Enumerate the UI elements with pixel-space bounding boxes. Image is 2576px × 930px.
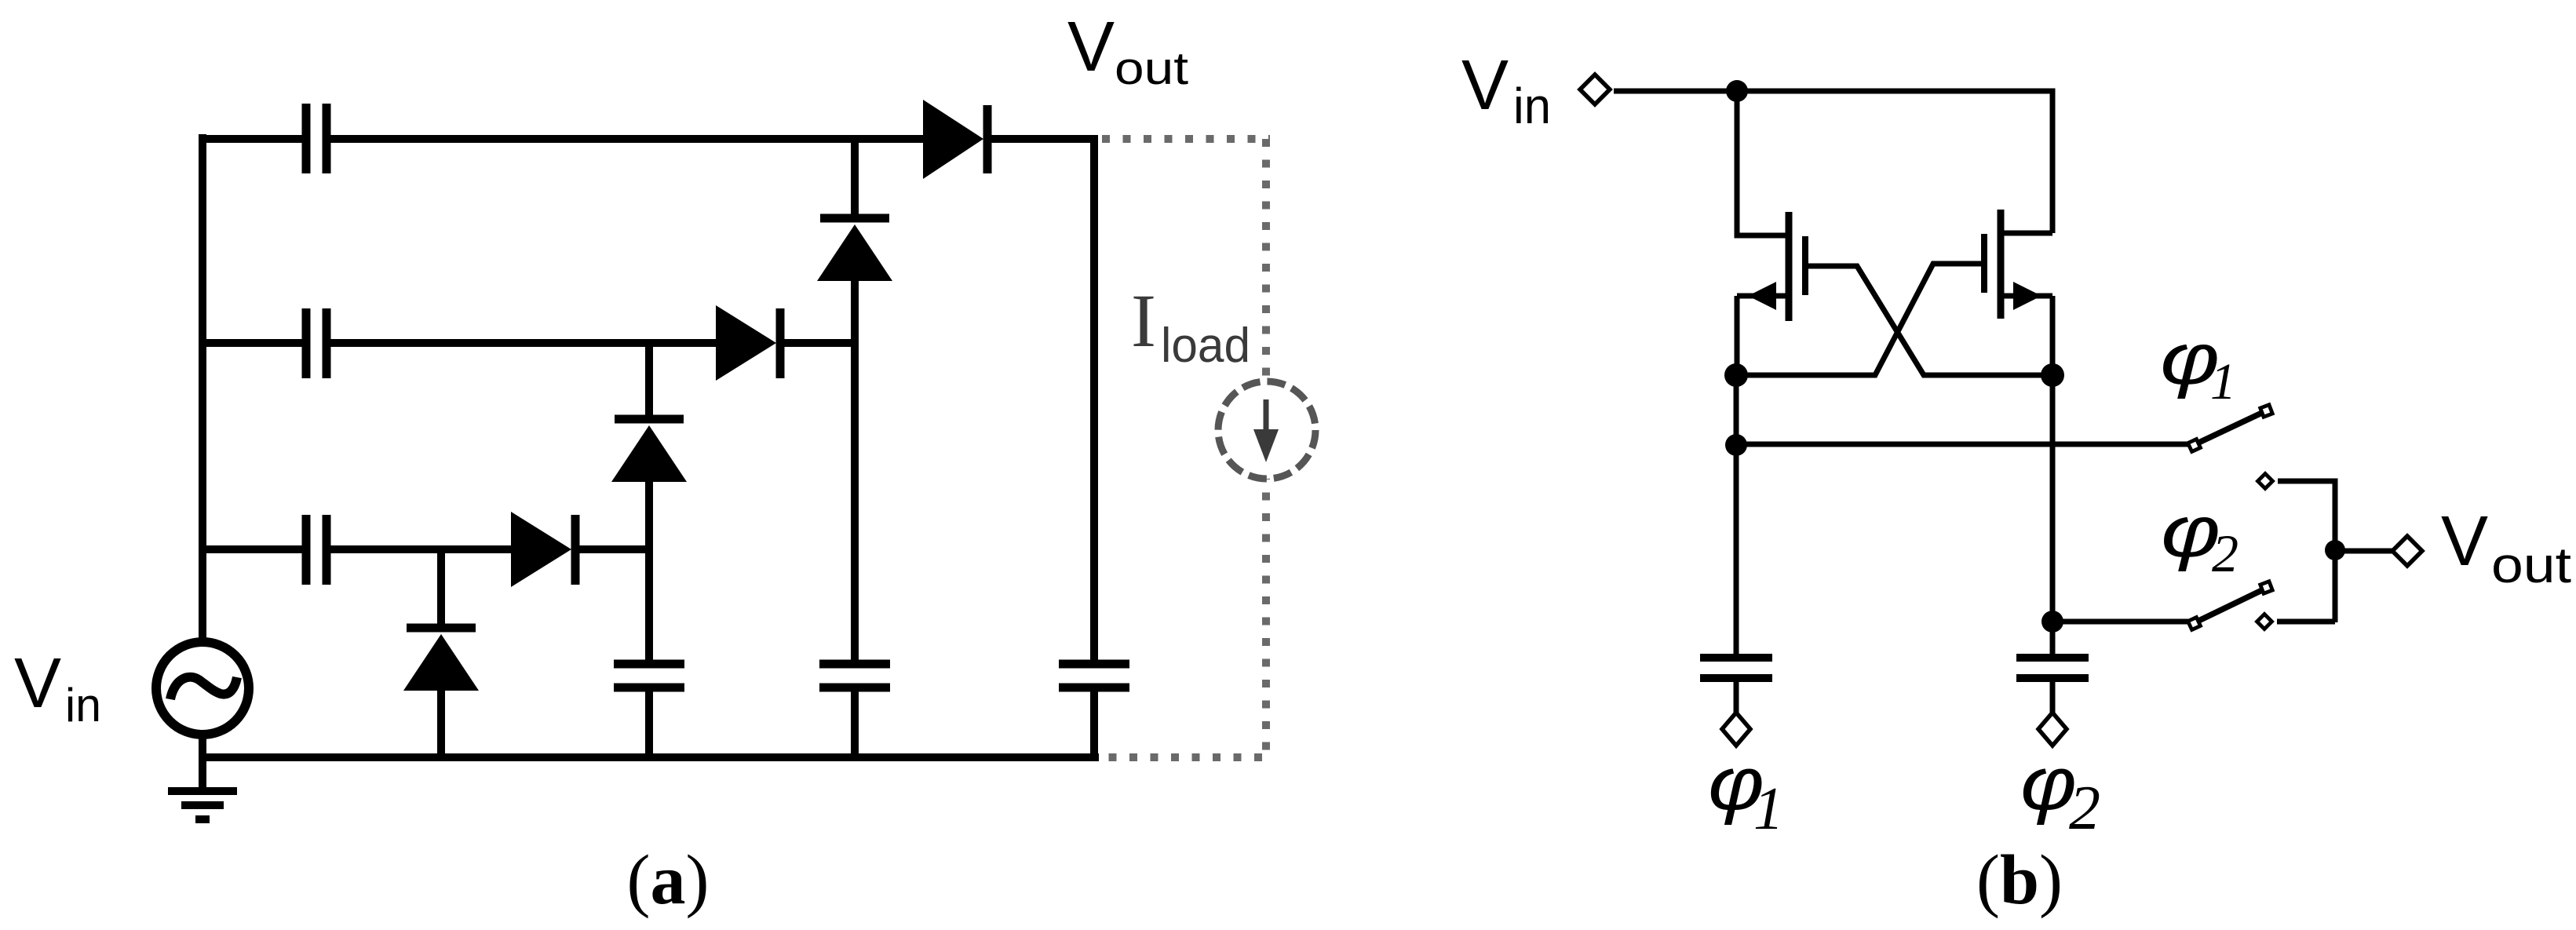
svg-text:1: 1	[2210, 353, 2236, 410]
capacitor C1 (b)	[1700, 658, 1772, 678]
wire out node to Vout diamond	[2335, 549, 2392, 554]
switch S2 blade	[2188, 582, 2273, 630]
diode D5	[403, 628, 479, 691]
wire cross-couple left node to M2 gate	[1735, 264, 1982, 375]
wire dotted right	[1262, 139, 1270, 757]
wire cross-couple right node to M1 gate	[1808, 266, 2053, 375]
wire right vertical	[2050, 375, 2056, 658]
wire D3 to node	[776, 339, 859, 347]
wire D2 down through node to C5	[851, 279, 859, 665]
wire D1 to Vout corner	[983, 135, 1098, 143]
diode D1	[923, 100, 987, 179]
svg-text:load: load	[1161, 319, 1250, 373]
wire below C4	[645, 688, 653, 757]
capacitor C3	[306, 515, 327, 585]
current source Iload	[1218, 381, 1315, 479]
junction phi1 tap	[1725, 434, 1747, 456]
wire phi2 line	[2052, 619, 2189, 625]
wire dotted bottom	[1102, 753, 1262, 761]
terminal Vout diamond	[2392, 536, 2422, 566]
wire D5 to bottom rail	[437, 688, 445, 757]
wire third branch middle segment	[330, 545, 515, 553]
capacitor C7 (output cap)	[1059, 664, 1129, 687]
terminal phi2 diamond	[2038, 713, 2067, 746]
svg-text:(a): (a)	[627, 841, 710, 919]
svg-text:out: out	[2491, 537, 2571, 593]
svg-text:in: in	[65, 679, 101, 731]
wire Vin to node	[1614, 89, 1737, 94]
transistor M2	[1984, 210, 2052, 375]
wire top node down to D2	[851, 139, 859, 215]
dotted load box	[1102, 139, 1270, 757]
capacitor C4	[614, 664, 684, 687]
wire left drain	[1737, 91, 1786, 235]
terminal Vin diamond	[1580, 75, 1610, 104]
wire third branch stub down to D5	[437, 549, 445, 625]
junction out node	[2325, 540, 2345, 560]
wire below C1	[1734, 679, 1739, 713]
label phi1 switch	[2160, 319, 2220, 399]
capacitor C5	[819, 664, 890, 687]
svg-text:out: out	[1115, 43, 1188, 94]
wire top branch left segment	[199, 135, 302, 143]
svg-text:(b): (b)	[1976, 841, 2063, 919]
capacitor C2	[306, 308, 327, 378]
capacitor C1	[306, 104, 327, 173]
svg-text:2: 2	[2069, 774, 2100, 843]
diode D4	[611, 419, 687, 482]
svg-text:V: V	[1461, 46, 1509, 125]
diode D2	[817, 218, 892, 281]
wire S2 contact to out corner	[2277, 619, 2335, 625]
wire middle node down to D4	[645, 343, 653, 416]
wire middle branch right segment	[330, 339, 720, 347]
wire top branch right segment	[330, 135, 927, 143]
junction node top	[1726, 80, 1748, 102]
wire middle branch left segment	[199, 339, 302, 347]
wire top to right corner	[1737, 91, 2052, 233]
wire dotted top	[1102, 135, 1270, 143]
wire S1 contact to out corner	[2278, 481, 2335, 622]
label phi2 bottom	[2020, 741, 2077, 826]
wire below C2	[2050, 679, 2056, 713]
switch S1 blade	[2188, 405, 2273, 452]
svg-text:V: V	[1067, 8, 1115, 86]
svg-text:V: V	[2441, 502, 2488, 581]
junction left node	[1724, 363, 1748, 387]
capacitor C2 (b)	[2016, 658, 2089, 678]
label phi2 switch	[2161, 492, 2220, 572]
terminal S1 contact	[2258, 474, 2273, 489]
junction right node	[2041, 363, 2064, 387]
diode D6	[511, 512, 575, 587]
svg-text:2: 2	[2212, 523, 2238, 583]
svg-text:I: I	[1131, 279, 1156, 363]
diode D3	[716, 305, 780, 381]
wire below C7	[1090, 688, 1098, 757]
transistor M1	[1737, 212, 1805, 375]
wire left rail	[199, 134, 206, 642]
AC source V1	[156, 642, 249, 735]
junction phi2 tap	[2041, 611, 2063, 633]
wire D6 to node	[571, 545, 653, 553]
wire source to ground	[199, 735, 206, 791]
svg-text:1: 1	[1753, 775, 1784, 842]
wire Vout vertical	[1090, 135, 1098, 665]
svg-text:in: in	[1513, 78, 1551, 134]
wire bottom rail	[199, 753, 1099, 761]
wire third branch left segment	[199, 545, 302, 553]
ground	[168, 791, 237, 819]
label phi1 bottom	[1708, 741, 1764, 826]
wire below C5	[851, 688, 859, 757]
wire phi1 line	[1736, 442, 2189, 447]
wire D4 down through third node to C4	[645, 480, 653, 665]
terminal phi1 diamond	[1722, 713, 1750, 746]
terminal S2 contact	[2257, 615, 2272, 629]
wire left vertical	[1734, 375, 1739, 658]
svg-text:V: V	[14, 644, 61, 723]
